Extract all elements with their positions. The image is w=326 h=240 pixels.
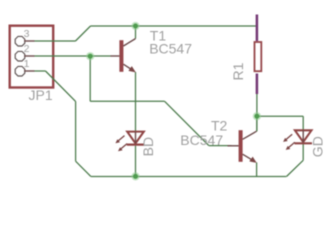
- LED BD: [115, 132, 144, 152]
- svg-text:1: 1: [24, 58, 30, 70]
- junction top (T1 collector / R1 net): [131, 22, 139, 30]
- wire T1 collector stub: [135, 26, 137, 39]
- wire R1 bottom to T2 collector: [256, 94, 258, 131]
- wire pin3 horizontal: [35, 40, 76, 42]
- connector JP1: [10, 26, 54, 88]
- wire mid horizontal: [90, 100, 164, 102]
- wire left vertical: [75, 101, 77, 161]
- svg-text:R1: R1: [230, 62, 246, 80]
- svg-text:JP1: JP1: [29, 87, 53, 103]
- svg-text:2: 2: [24, 43, 30, 55]
- wire junction drop at x90: [89, 56, 91, 101]
- resistor R1: [255, 15, 262, 95]
- wire bottom horizontal: [91, 176, 286, 178]
- svg-text:BD: BD: [140, 137, 156, 156]
- wire top horizontal to R1: [91, 25, 257, 27]
- wire T2 collector stub: [256, 116, 258, 131]
- wire R1 junction to GD: [257, 115, 303, 117]
- wire T2 emitter down: [256, 162, 258, 176]
- junction base net: [86, 52, 94, 60]
- svg-text:BC547: BC547: [149, 41, 192, 57]
- wire left bottom diagonal: [76, 161, 91, 176]
- wire pin1 horizontal: [35, 70, 46, 72]
- wire into T2 base: [209, 145, 232, 147]
- LED GD: [283, 130, 312, 150]
- junction R1 bottom / T2 collector: [253, 112, 261, 120]
- wire pin2 to T1 base: [35, 55, 111, 57]
- wire mid diagonal to T2 base: [165, 101, 209, 145]
- transistor T1: [111, 39, 136, 73]
- transistor T2: [228, 130, 257, 163]
- svg-text:BC547: BC547: [180, 132, 223, 148]
- wire GD anode drop: [302, 116, 304, 130]
- svg-text:3: 3: [24, 28, 30, 40]
- wire GD bottom diagonal: [287, 160, 304, 176]
- wire T1 emitter to BD anode: [135, 72, 137, 131]
- wire pin1 diagonal down: [46, 71, 76, 101]
- wire BD cathode down: [135, 146, 137, 177]
- svg-text:GD: GD: [309, 136, 325, 157]
- wire GD cathode down: [302, 144, 304, 161]
- wire pin3 diagonal up: [76, 26, 91, 41]
- junction bottom net: [131, 172, 139, 180]
